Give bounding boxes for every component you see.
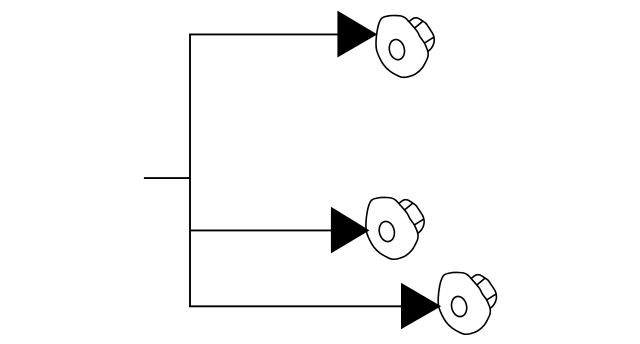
arrow 1 [337,11,377,58]
wire middle branch [190,229,332,231]
fastener 2 (middle) [366,197,424,259]
arrow 2 [331,207,370,254]
fastener 1 (top) [376,15,434,77]
fastener 3 (bottom) [438,272,496,334]
wire bracket: top branch, vertical trunk, bottom branch [190,34,402,306]
arrow 3 [401,283,441,329]
wire stub left [144,177,190,179]
